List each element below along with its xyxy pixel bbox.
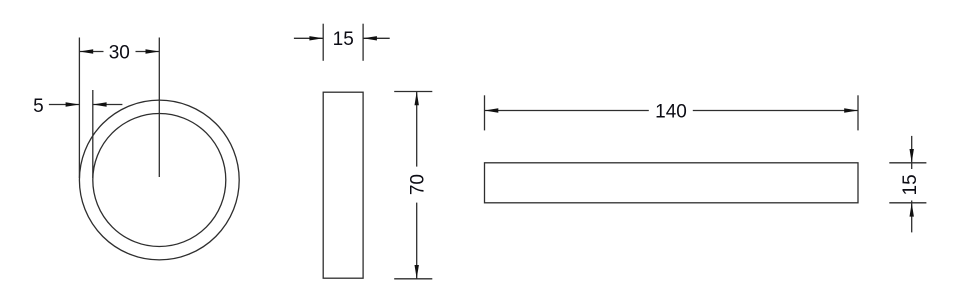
svg-text:15: 15 xyxy=(333,29,354,50)
svg-text:5: 5 xyxy=(33,96,44,117)
svg-text:15: 15 xyxy=(900,174,921,195)
svg-text:30: 30 xyxy=(109,42,130,63)
svg-text:140: 140 xyxy=(655,101,687,122)
svg-text:70: 70 xyxy=(408,174,429,195)
